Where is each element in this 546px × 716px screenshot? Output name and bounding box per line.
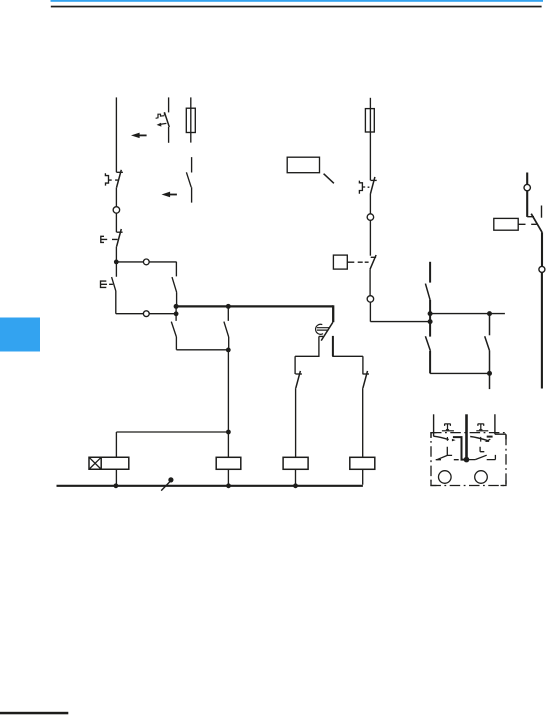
junction dot [487,311,492,316]
cam left output [295,336,323,374]
wire [369,220,371,255]
arrow left big 2 [162,192,177,198]
relay coil K1 with X box [89,457,129,469]
contact bar under T left [442,430,454,432]
circuit breaker Q2 blade [370,177,375,194]
lamp circle right [475,471,488,484]
terminal circle [143,259,149,265]
wire coil K4 bottom [227,469,229,486]
left limit switch lower blade [437,455,448,460]
right limit switch lower blade [475,455,487,459]
circuit breaker Q2 foot [371,179,377,181]
bottom bus heavy [57,485,363,487]
circuit breaker Q1 foot [116,171,123,173]
left limit switch tick [446,437,448,441]
detail box border corners [431,433,506,486]
right feeder heavy [526,191,528,217]
label box right [494,218,518,230]
wire row y373.4 [430,372,489,374]
right limit switch heavy bar [487,436,493,438]
wire coil K1 bottom [115,469,117,486]
right limit switch tick [480,437,482,442]
right contact blade [531,214,542,233]
NC limit contact foot [371,256,376,258]
wire down to coil row [227,350,229,458]
cam right output wire [332,356,363,374]
terminal circle [524,184,530,190]
junction dot [226,304,231,309]
right feeder heavy low [541,232,543,266]
arrow left big [131,133,147,139]
right feeder heavy top [526,173,528,185]
start button S1 blade [112,262,117,314]
detail box entry line left [433,414,435,436]
cam right output stub [332,336,334,356]
thermal contact demo blade [164,112,169,127]
wire coil K2 bottom [295,469,297,486]
sub right column [489,314,491,336]
junction dot [226,483,231,488]
NC limit contact blade [370,255,376,269]
wire [369,194,371,214]
thermal contact demo bottom wire [168,127,170,143]
linkage box [333,255,347,269]
junction dot [428,319,433,324]
wire row y349.8 [176,349,228,351]
cam changeover heavy corner [332,305,334,322]
sub right column low [489,351,491,389]
holding contact K1 branch [172,262,177,307]
circuit breaker Q1 trip mechanism [105,173,118,185]
contact bar under T right [476,430,488,432]
branch contact K4b blade [296,371,301,388]
sub-circuit left column heavy mid [429,300,431,337]
terminal circle [539,266,545,272]
wire row y313.7 [116,313,176,315]
right lower wires [467,455,496,460]
linkage dashes [347,261,368,263]
actuation dot marker [168,477,173,482]
terminal circle [367,296,374,303]
stop button S0 foot [117,231,123,233]
stop button S0 actuator E [101,236,118,242]
sub-circuit left column heavy [429,262,431,283]
wire [115,213,117,232]
junction dot [428,311,433,316]
label box empty [287,157,319,173]
small arrow at thermal contact [160,123,167,124]
junction dot [114,260,119,265]
start button S1 actuator E [101,281,113,287]
branch contact K4c blade [363,371,368,388]
wire to coil K3 [362,388,364,457]
contact K2a column [171,306,176,349]
junction dot [174,311,179,316]
wire [369,269,371,295]
bus heavy y306.4 [176,305,333,307]
fuse F2 wires [190,97,192,142]
terminal circle [367,214,374,221]
detail box dash-dot border [431,433,506,486]
junction dot [114,483,119,488]
sub-circuit left column heavy low [429,351,431,374]
circuit breaker Q2 trip mechanism [359,181,369,194]
junction dot [293,483,298,488]
left limit switch curved blade [433,436,448,439]
actuation slash marker [161,482,170,491]
fuse F2 demo [186,108,195,132]
wire L2 top [369,98,371,181]
cam blade [321,322,333,340]
thermal contact demo top wire [168,97,170,112]
fuse F3 [365,109,374,132]
demo NO contact [186,157,191,203]
sub right blade [485,336,490,351]
wire coil K3 bottom [362,469,364,484]
branch contact K4c foot [363,373,370,375]
lamp circle left [439,471,452,484]
sub contact blade lower [425,336,430,351]
left limit switch arrowhead [452,439,456,442]
right contact foot [527,216,534,218]
junction dot [226,430,231,435]
left limit switch lower contact [447,447,452,456]
right feeder heavy bottom [541,273,543,389]
contact K3a column [224,306,229,349]
right limit switch hook arrow [488,439,491,441]
header black rule [51,6,542,8]
junction dot [464,457,470,463]
wire down and right [370,302,430,321]
left lower wires [436,459,459,461]
circuit breaker Q1 blade [117,170,122,188]
header blue rule [51,0,544,2]
T label left [445,424,451,430]
right limit switch curved blade [470,437,488,441]
right contact stub [541,206,543,218]
detail box entry line centre heavy [465,414,468,459]
junction dot [174,304,179,309]
wire node row y262 [116,261,176,263]
wire [115,247,117,262]
label pointer [324,174,334,184]
branch contact K4b foot [295,373,302,375]
footer bar [0,712,68,715]
relay coil K4 [216,457,241,469]
right limit switch lower contact [480,447,484,452]
wire row y432 [116,431,228,433]
contactor coil K2 [283,457,308,469]
thermal release squiggle [156,113,165,119]
label dash link [518,223,536,225]
stop button S0 blade [117,229,122,247]
T label right [478,424,484,430]
wire L1 top [115,97,117,172]
junction dot [487,371,492,376]
left margin blue tab [0,318,40,352]
wire [115,188,117,207]
wire coil K1 top [115,432,117,457]
cam roller symbol [316,324,330,334]
sub contact blade top [425,284,430,300]
junction dot [226,348,231,353]
contactor coil K3 [350,457,375,469]
terminal circle [143,311,149,317]
left limit switch heavy link [453,437,465,460]
wire row y313.6 [430,313,505,315]
terminal circle [113,207,120,214]
detail box entry line right [495,414,506,439]
wire to coil K2 [295,388,297,457]
